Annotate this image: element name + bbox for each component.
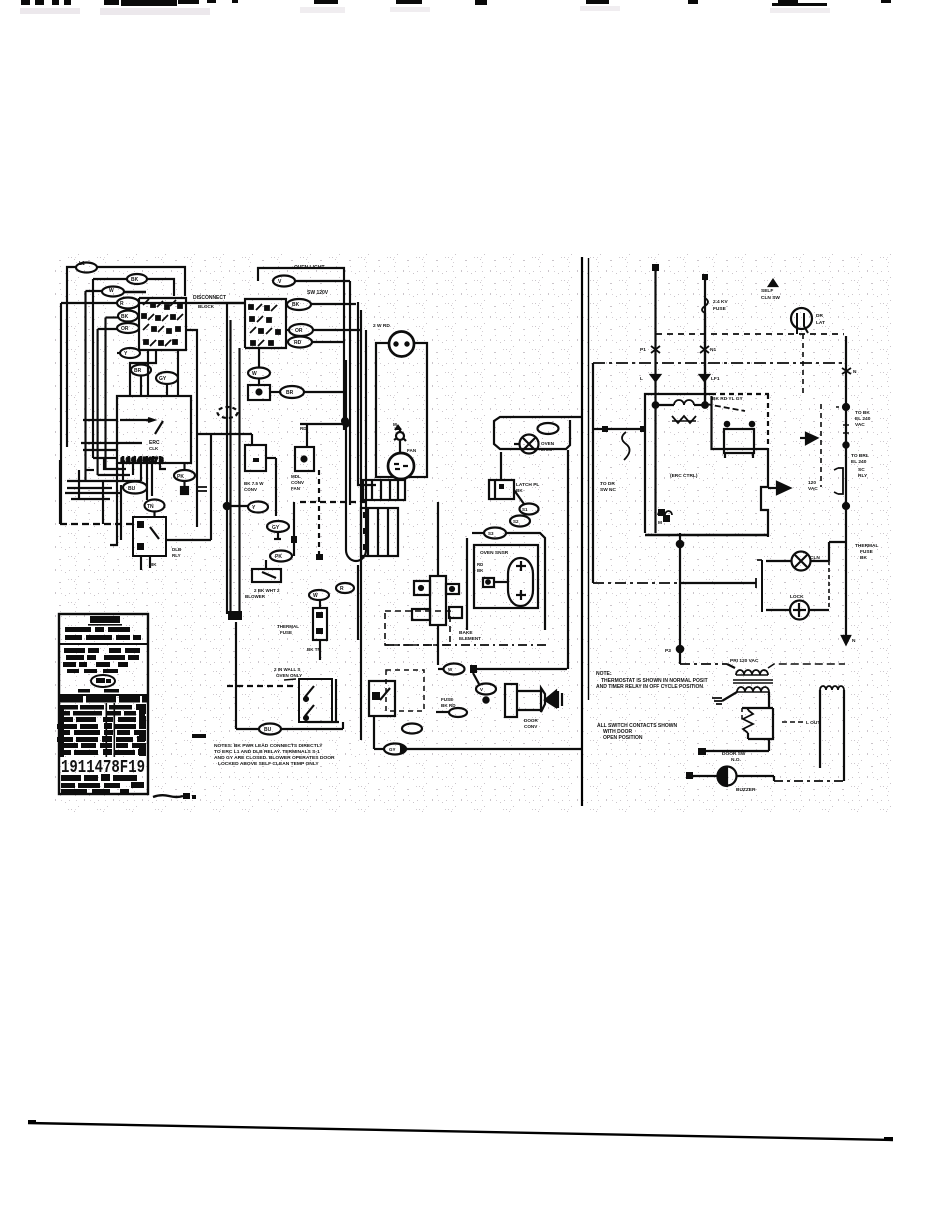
- svg-text:LOCK: LOCK: [790, 594, 804, 600]
- supply line N: [704, 280, 706, 405]
- svg-text:FAN: FAN: [407, 448, 417, 453]
- connector strip P2: [363, 480, 405, 500]
- left rail V5: [97, 329, 99, 475]
- dash-dot bus: [593, 362, 846, 364]
- left rail V3: [84, 291, 86, 481]
- oval tag WA: [123, 482, 147, 494]
- motor box MB2: [295, 447, 314, 471]
- switch bank SB2 frame: [245, 299, 286, 348]
- svg-text:FUSE: FUSE: [280, 630, 292, 635]
- oval tag M11: [336, 583, 354, 593]
- svg-text:OVEN: OVEN: [541, 441, 555, 446]
- NOTE block: [192, 734, 206, 738]
- right rail junction: [842, 368, 851, 374]
- svg-text:BK TN: BK TN: [307, 647, 321, 652]
- wire row2: [93, 278, 127, 280]
- left rail: [592, 363, 594, 583]
- junction triangles: [651, 375, 660, 381]
- svg-text:ELEMENT: ELEMENT: [459, 636, 481, 641]
- oval tag W1: [76, 263, 97, 273]
- svg-text:L1: L1: [79, 261, 85, 267]
- relay coil CR: [674, 400, 694, 405]
- connector strip P3: [361, 508, 398, 556]
- svg-text:DLB: DLB: [172, 547, 182, 552]
- top speckle: [20, 6, 830, 15]
- oval tag M2: [287, 299, 311, 310]
- svg-text:BK RD: BK RD: [441, 703, 456, 708]
- svg-text:DOOR: DOOR: [524, 718, 538, 723]
- transformer primary: [680, 663, 727, 665]
- box MB3: [252, 569, 281, 582]
- left rail V4: [92, 279, 94, 458]
- svg-text:TO BRL: TO BRL: [851, 453, 869, 459]
- svg-text:M: M: [393, 422, 397, 427]
- scan speckle: [50, 252, 895, 812]
- wire to mid column: [210, 434, 212, 540]
- oval tag S2: [510, 516, 530, 527]
- dash-dot floor line: [385, 644, 549, 646]
- fan impeller: [396, 432, 404, 440]
- wires switchbank to timer: [147, 350, 149, 396]
- door sw terminal: [698, 748, 706, 755]
- RIGHTBLOCK: [593, 264, 851, 786]
- label heading lines: [65, 627, 141, 640]
- svg-text:NOTE:: NOTE:: [596, 671, 612, 677]
- motor box MB1: [245, 445, 266, 471]
- svg-text:S1: S1: [522, 507, 528, 512]
- latch plug box: [489, 480, 514, 499]
- top cut-off text row: [21, 0, 891, 6]
- left rail pair: [226, 304, 228, 614]
- LABELTABLE: [57, 614, 196, 799]
- svg-text:RD: RD: [477, 562, 483, 567]
- indicator lamp 2: [790, 601, 809, 620]
- svg-text:S3: S3: [488, 531, 494, 536]
- svg-text:EL 240: EL 240: [855, 416, 871, 422]
- svg-text:BK: BK: [516, 488, 523, 493]
- label spec lines: [63, 648, 140, 673]
- left rail V2: [60, 303, 62, 524]
- thermostat S-curve: [602, 426, 608, 432]
- oval tag W6: [117, 323, 139, 333]
- right rail R4: [360, 310, 362, 740]
- table body rows: [57, 704, 146, 755]
- diode arrow: [806, 433, 817, 444]
- svg-text:LAT: LAT: [816, 320, 825, 326]
- resistor loop: [742, 707, 773, 709]
- secondary ground lead: [722, 692, 737, 701]
- svg-text:DISCONNECT: DISCONNECT: [193, 295, 226, 301]
- svg-text:P1: P1: [640, 347, 646, 353]
- switch bank SB1 frame: [139, 298, 186, 350]
- switch bank SB1 contacts: [142, 299, 183, 346]
- wires timer bottom drop: [122, 463, 124, 481]
- svg-text:2 BK WHT 2: 2 BK WHT 2: [254, 588, 280, 593]
- svg-text:LOCKED ABOVE SELF CLEAN TEMP O: LOCKED ABOVE SELF CLEAN TEMP ONLY: [218, 761, 319, 767]
- dashed enclosure: [385, 611, 450, 645]
- svg-text:R: R: [120, 301, 124, 307]
- transformer core: [733, 679, 773, 681]
- dashed link wire: [300, 501, 370, 503]
- svg-text:W: W: [313, 593, 318, 599]
- oval tag W5: [118, 311, 138, 322]
- svg-text:BUZZER: BUZZER: [736, 787, 756, 793]
- oval tag W7: [120, 348, 140, 358]
- svg-text:THERMAL: THERMAL: [855, 543, 879, 549]
- wire top loop: [67, 267, 76, 447]
- wire row5: [106, 316, 119, 318]
- divider second line: [588, 258, 590, 700]
- svg-text:AND GY ARE CLOSED. BLOWER OPER: AND GY ARE CLOSED. BLOWER OPERATES DOOR: [214, 755, 335, 761]
- fuse squiggle on N: [702, 298, 708, 313]
- right rail R3: [358, 302, 376, 485]
- oval tag S1: [520, 504, 539, 515]
- svg-text:RLY: RLY: [858, 473, 868, 479]
- right notes block2: [597, 723, 677, 741]
- svg-text:N1: N1: [710, 347, 716, 353]
- oval tag W3: [102, 287, 124, 297]
- svg-text:TO DR: TO DR: [600, 481, 615, 487]
- svg-text:EL 240: EL 240: [851, 459, 867, 465]
- svg-text:FUSE: FUSE: [860, 549, 874, 555]
- oval tag W2: [127, 274, 147, 284]
- handwriting smudge: [153, 795, 183, 797]
- svg-text:LAMP: LAMP: [541, 447, 554, 452]
- svg-text:BK: BK: [121, 314, 129, 320]
- left block labels: [79, 261, 184, 510]
- left rail V6: [104, 318, 106, 470]
- label title: [90, 616, 120, 623]
- svg-text:VAC: VAC: [855, 422, 865, 428]
- switch box SW4: [369, 681, 395, 716]
- svg-text:BK: BK: [477, 568, 484, 573]
- bottom rail: [373, 716, 375, 749]
- indicator lamp 1: [792, 552, 811, 571]
- wire arrow top: [300, 423, 348, 425]
- bake element E1: [430, 576, 446, 625]
- svg-text:OVEN ONLY: OVEN ONLY: [276, 673, 302, 678]
- buzzer: [718, 767, 737, 786]
- fuse mark N: [700, 346, 709, 353]
- junction blob J2: [291, 536, 297, 543]
- svg-text:12345678: 12345678: [121, 458, 164, 464]
- oval tag M12: [259, 724, 281, 735]
- junction J1: [224, 503, 230, 509]
- right labels: [600, 288, 879, 793]
- svg-text:BK 7.5 W: BK 7.5 W: [244, 481, 264, 486]
- sensor capsule: [508, 558, 533, 606]
- svg-text:BK: BK: [860, 555, 867, 561]
- buzzer terminal: [686, 772, 693, 779]
- oval tag E6: [449, 708, 467, 717]
- svg-text:L: L: [640, 376, 643, 382]
- supply line L1: [654, 267, 656, 533]
- oval tag M7: [248, 502, 268, 513]
- table header band: [60, 696, 83, 703]
- svg-text:P3: P3: [665, 648, 671, 654]
- warning triangle: [769, 280, 777, 286]
- dash label marks: [782, 721, 803, 723]
- svg-text:DR: DR: [816, 313, 823, 319]
- svg-text:THERMAL: THERMAL: [277, 624, 299, 629]
- timer box T1: [117, 396, 191, 463]
- right rail R2: [349, 281, 351, 505]
- oval tag E2: [444, 664, 465, 675]
- sensor plug: [483, 578, 494, 587]
- right rail: [845, 336, 847, 638]
- svg-text:TO BK: TO BK: [855, 410, 870, 416]
- wire top to right corner: [97, 267, 185, 296]
- dashed drop to box: [802, 334, 804, 394]
- svg-text:BK: BK: [292, 302, 300, 308]
- junction sq J3: [316, 554, 323, 560]
- svg-text:BLOCK: BLOCK: [198, 304, 215, 309]
- svg-text:W: W: [252, 371, 257, 377]
- nested corner wires below timer: [93, 458, 126, 469]
- oval tag M10: [309, 590, 329, 600]
- svg-text:BLOWER: BLOWER: [245, 594, 266, 599]
- MIDBLOCK: [215, 268, 376, 740]
- oval tag WC: [145, 500, 165, 512]
- wire left rail bottom: [235, 622, 237, 729]
- terminal blob WB: [181, 487, 188, 494]
- svg-text:CONV: CONV: [244, 487, 257, 492]
- svg-text:N.O.: N.O.: [731, 757, 741, 763]
- dashed bus top: [656, 333, 844, 335]
- oval tag M5: [248, 368, 270, 379]
- svg-text:2 W RD: 2 W RD: [373, 323, 390, 329]
- sensor box: [474, 545, 538, 608]
- bottom rule line: [28, 1123, 893, 1140]
- svg-text:GY: GY: [389, 747, 396, 752]
- svg-text:CLN: CLN: [810, 555, 820, 561]
- bottom rows: [61, 774, 144, 793]
- junction blob E3: [470, 665, 477, 673]
- svg-text:2.4 KV: 2.4 KV: [713, 299, 728, 305]
- svg-text:OVEN LIGHT: OVEN LIGHT: [294, 265, 325, 271]
- oval tag F2: [538, 423, 559, 434]
- svg-text:GY: GY: [272, 525, 280, 531]
- M coil bottom: [658, 511, 672, 515]
- LEFTBLOCK: [60, 263, 252, 571]
- wire mid top loop: [258, 268, 344, 430]
- motor circle C2: [388, 453, 414, 479]
- oval tag E8: [384, 744, 406, 755]
- junction blob bottom: [228, 611, 242, 620]
- svg-text:PK: PK: [275, 554, 282, 560]
- svg-text:SELF: SELF: [761, 288, 773, 294]
- svg-text:CLN SW: CLN SW: [761, 295, 780, 301]
- bottom wire with oval: [236, 728, 259, 730]
- svg-text:TO ERC L1 AND DLB RELAY. TERMI: TO ERC L1 AND DLB RELAY. TERMINALS S-1: [214, 749, 320, 755]
- oval tag W4: [117, 298, 139, 309]
- svg-text:BR: BR: [134, 368, 142, 374]
- secondary right lead: [768, 692, 770, 708]
- svg-text:S2: S2: [513, 519, 519, 524]
- dash-dot lower bus: [593, 582, 680, 584]
- svg-text:BK: BK: [150, 562, 157, 567]
- svg-text:AND TIMER RELAY IN OFF CYCLE P: AND TIMER RELAY IN OFF CYCLE POSITION: [596, 684, 703, 690]
- timer arrow contact: [120, 419, 152, 421]
- svg-text:CONV: CONV: [524, 724, 538, 729]
- oval tag E7: [402, 724, 422, 734]
- arrow right of box: [768, 487, 777, 489]
- label divider 2: [59, 694, 148, 696]
- svg-text:FUSE: FUSE: [441, 697, 453, 702]
- bottom dash link: [774, 780, 844, 782]
- svg-text:(ERC CTRL): (ERC CTRL): [670, 473, 698, 479]
- svg-text:RD: RD: [300, 426, 307, 431]
- oval tag S3: [484, 528, 506, 539]
- latch circle P: [791, 308, 812, 329]
- svg-text:W: W: [109, 288, 114, 294]
- lamp box LB: [248, 385, 270, 400]
- wire lock bottom: [307, 721, 339, 723]
- oval tag E4: [476, 684, 496, 695]
- oven lamp circle C1: [389, 332, 414, 357]
- svg-text:CONV: CONV: [291, 480, 304, 485]
- svg-text:CLK: CLK: [149, 446, 159, 451]
- control box: [645, 394, 711, 533]
- lamp1 to rail: [828, 542, 830, 561]
- svg-text:OR: OR: [295, 328, 303, 334]
- door lock box DL: [299, 679, 332, 722]
- bracket: [838, 468, 843, 494]
- svg-text:TN: TN: [147, 504, 154, 510]
- fuse mark L1: [651, 346, 660, 353]
- oval tag W9: [156, 372, 178, 384]
- long bus wire y303: [61, 302, 117, 304]
- column dividers: [106, 703, 108, 757]
- svg-text:VAC: VAC: [808, 486, 818, 492]
- svg-text:GY: GY: [159, 376, 167, 382]
- svg-text:120: 120: [808, 480, 816, 486]
- oval tag M9: [270, 551, 292, 562]
- svg-text:MDL: MDL: [291, 474, 301, 479]
- element drop wire: [437, 625, 439, 665]
- box bottom drop: [679, 533, 681, 664]
- timer feed wire: [83, 419, 117, 421]
- oval tag M1: [273, 276, 295, 287]
- svg-text:OR: OR: [121, 326, 129, 332]
- svg-text:RLY: RLY: [172, 553, 181, 558]
- CENTERCOL: [361, 332, 581, 755]
- svg-text:SW NC: SW NC: [600, 487, 617, 493]
- svg-text:FAN: FAN: [291, 486, 300, 491]
- relay box K1: [133, 517, 166, 556]
- switch bank SB2 contacts: [249, 304, 280, 346]
- inner contact rect: [724, 429, 754, 453]
- svg-text:M: M: [658, 520, 662, 526]
- oval tag M6: [280, 386, 304, 398]
- svg-text:BU: BU: [128, 486, 136, 492]
- divider line between halves: [581, 257, 583, 806]
- svg-text:R: R: [340, 586, 344, 592]
- svg-text:LF1: LF1: [711, 376, 720, 382]
- svg-text:PK: PK: [177, 474, 184, 480]
- svg-text:BK: BK: [131, 277, 139, 283]
- svg-text:PRI 120 VAC: PRI 120 VAC: [730, 658, 759, 664]
- oval tag M4: [288, 337, 312, 348]
- svg-text:BK RD YL GY: BK RD YL GY: [712, 396, 744, 402]
- relay coil right: [820, 686, 844, 690]
- U loop door: [345, 360, 347, 550]
- fan loop wire: [494, 417, 581, 449]
- svg-text:OVEN SNSR: OVEN SNSR: [480, 550, 509, 556]
- label divider 1: [59, 643, 148, 645]
- oval tag M8: [267, 521, 289, 532]
- dashed box SW4: [386, 670, 424, 711]
- oval tag W8: [131, 365, 151, 376]
- sensor loop: [506, 533, 545, 630]
- fuse component F1: [313, 608, 327, 640]
- rail R5: [238, 348, 240, 611]
- lamp circuit rect: [376, 343, 427, 477]
- svg-text:2 IN WALL S: 2 IN WALL S: [274, 667, 300, 672]
- fan motor circle FM: [520, 435, 539, 454]
- oval tag WB: [174, 470, 195, 481]
- svg-text:BR: BR: [286, 390, 294, 396]
- label logo ellipse: [91, 675, 115, 687]
- relay leads: [140, 556, 142, 570]
- connector dash: [198, 487, 207, 491]
- svg-text:N: N: [852, 638, 856, 644]
- svg-text:SW 120V: SW 120V: [307, 290, 329, 296]
- tall bracket: [761, 560, 763, 612]
- svg-text:FUSE: FUSE: [713, 306, 727, 312]
- svg-text:RD: RD: [294, 340, 302, 346]
- svg-text:OPEN POSITION: OPEN POSITION: [603, 735, 643, 741]
- svg-text:BU: BU: [264, 727, 272, 733]
- svg-text:V: V: [480, 687, 483, 692]
- timer terminals: [122, 456, 124, 463]
- dashed oval DT: [218, 407, 238, 418]
- transformer secondary: [737, 687, 769, 692]
- svg-text:L OUT: L OUT: [806, 720, 820, 726]
- svg-text:NOTES: BK PWR LEAD CONNECTS DI: NOTES: BK PWR LEAD CONNECTS DIRECTLY: [214, 743, 323, 749]
- right notes block1: [596, 671, 708, 690]
- oval tag M3: [289, 324, 313, 336]
- wire row3: [86, 290, 103, 292]
- svg-text:SC: SC: [858, 467, 865, 473]
- svg-text:N: N: [853, 369, 857, 375]
- label outer border: [59, 614, 148, 794]
- midblock labels: [252, 265, 344, 733]
- dashed wire to lock: [227, 685, 297, 687]
- bottom dashed wire: [60, 523, 133, 525]
- svg-text:DOOR SW: DOOR SW: [722, 751, 746, 757]
- door latch motor cone: [545, 691, 556, 707]
- bus from left block: [215, 302, 245, 304]
- broil element E5: [505, 684, 517, 717]
- dashed vert mid: [820, 404, 822, 487]
